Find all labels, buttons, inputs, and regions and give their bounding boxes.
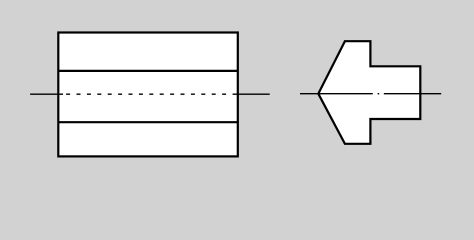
side view arrow body: [318, 41, 420, 144]
center line dashed middle: [66, 93, 233, 95]
lower edge line: [58, 121, 238, 123]
center line left extension: [30, 93, 63, 95]
center line right extension: [233, 93, 270, 95]
front view rectangle body: [58, 33, 238, 157]
side view center line right solid segment: [384, 93, 441, 95]
side view center line left solid segment: [300, 93, 373, 95]
upper edge line: [58, 70, 238, 72]
side view center line dot: [378, 93, 380, 95]
